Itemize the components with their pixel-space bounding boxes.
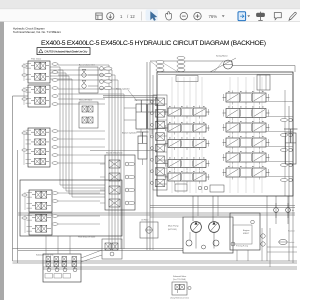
svg-text:76%: 76% <box>209 14 218 19</box>
svg-text:Using Reference Drive: Using Reference Drive <box>170 296 189 299</box>
svg-text:Bucket Cylinder: Bucket Cylinder <box>122 131 137 134</box>
svg-text:Oil Filter: Oil Filter <box>141 219 149 222</box>
svg-text:(5x=771-220A): (5x=771-220A) <box>173 278 186 281</box>
svg-text:6RB1T: 6RB1T <box>243 233 250 235</box>
svg-text:Swing Motor: Swing Motor <box>216 54 228 57</box>
svg-text:Coolant: Coolant <box>288 241 295 244</box>
svg-text:Technical Manual, Vol. No. T17: Technical Manual, Vol. No. T1748E-E1 <box>13 30 61 34</box>
svg-text:Solenoid Valve: Solenoid Valve <box>173 276 187 278</box>
svg-text:EX400-5 EX400LC-5 EX450LC-5 H: EX400-5 EX400LC-5 EX450LC-5 HYDRAULIC CI… <box>41 40 266 47</box>
svg-text:Engine: Engine <box>243 230 250 232</box>
svg-text:Shuttle Valve Unit: Shuttle Valve Unit <box>106 152 123 155</box>
svg-text:Pilot Shut-Off Valve: Pilot Shut-Off Valve <box>78 235 96 238</box>
svg-text:Accumulator Unit: Accumulator Unit <box>79 64 95 67</box>
svg-text:(HPV145): (HPV145) <box>168 229 177 231</box>
svg-text:Shut-Off Valve: Shut-Off Valve <box>79 99 93 102</box>
svg-text:CAUTION: Authorized Hitachi De: CAUTION: Authorized Hitachi Dealer Use O… <box>44 50 88 54</box>
svg-text:Boom Cylinder: Boom Cylinder <box>116 87 130 90</box>
svg-text:Radiator: Radiator <box>288 229 295 232</box>
svg-text:Pilot Valve: Pilot Valve <box>31 57 42 60</box>
svg-text:Main Pump: Main Pump <box>168 226 179 228</box>
svg-text:Priming Pump: Priming Pump <box>236 244 248 247</box>
svg-text:12: 12 <box>130 14 135 19</box>
